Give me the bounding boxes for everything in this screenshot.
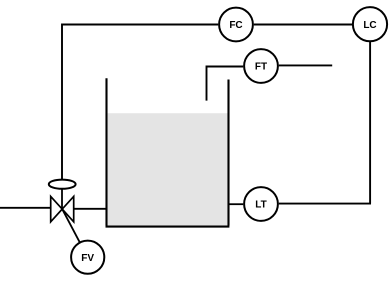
instrument FV	[71, 241, 104, 274]
valve actuator diaphragm	[49, 180, 76, 189]
wire: pipe valve to tank	[74, 208, 107, 210]
wire: dip tube elbow to FT	[207, 67, 244, 101]
wire: inlet pipe left of valve	[0, 207, 51, 209]
instrument FT	[244, 49, 278, 83]
svg-text:FT: FT	[255, 62, 267, 73]
wire: signal FC to LC	[254, 24, 352, 26]
wire: signal LC down to LT line	[369, 42, 371, 204]
wire: signal LT to right vertical	[279, 203, 371, 205]
instrument LT	[244, 187, 278, 221]
instrument FC	[219, 8, 253, 42]
liquid level in tank	[108, 113, 228, 225]
svg-text:FV: FV	[81, 253, 94, 264]
wire: signal valve to FV bubble	[62, 209, 80, 242]
svg-text:LC: LC	[363, 20, 376, 31]
wire: signal valve up to FC line	[62, 25, 218, 180]
tank T1	[106, 78, 230, 226]
svg-text:FC: FC	[229, 20, 242, 31]
control valve FV body	[51, 196, 74, 221]
instrument LC	[353, 7, 387, 41]
svg-text:LT: LT	[255, 200, 266, 211]
wire: FT to right stub	[279, 64, 332, 66]
wire: tank tap to LT	[229, 203, 244, 205]
valve actuator stem	[61, 189, 63, 209]
